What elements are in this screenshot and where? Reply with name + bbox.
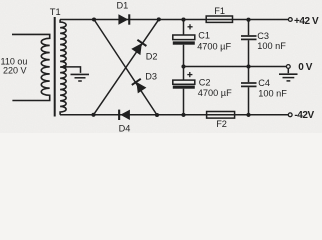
wire top rail (+ rail) [60, 19, 288, 21]
capacitor C4 [241, 67, 257, 115]
wire diagonal for D3 [94, 20, 157, 116]
terminal 0V [286, 65, 290, 69]
capacitor C1 [173, 20, 195, 67]
node C1 top [181, 18, 185, 22]
wire diagonal for D2 [94, 19, 159, 114]
wire center tap [65, 67, 81, 73]
node bridge bottom-left [91, 113, 95, 117]
wire 0V ground stub [287, 68, 289, 73]
node bridge top-left [92, 17, 96, 21]
node C3/C4 mid [246, 64, 250, 68]
node C2 bottom [181, 113, 185, 117]
ground (center tap) [71, 74, 90, 81]
wire bottom rail (- rail) [60, 114, 288, 116]
wire mid rail (0 V) [184, 66, 287, 68]
transformer T1 secondary winding [60, 20, 66, 115]
transformer T1 core [54, 17, 56, 117]
transformer T1 primary winding with leads [12, 34, 50, 100]
scan speckle overlay [0, 0, 1, 1]
node C1/C2 mid [181, 64, 185, 68]
node bridge top-right [157, 17, 161, 21]
capacitor C3 [241, 20, 257, 67]
fuse F2 [207, 112, 235, 119]
terminal -42V [288, 113, 292, 117]
node C3 top [246, 18, 250, 22]
ground (0V output) [279, 74, 298, 81]
terminal +42V [288, 18, 292, 22]
node center tap dot [63, 65, 67, 69]
diode D1 [118, 14, 130, 25]
node C4 bottom [246, 113, 250, 117]
diode D4 [118, 110, 130, 120]
node bridge bottom-right [155, 113, 159, 117]
diode D2 [131, 40, 146, 55]
capacitor C2 [173, 67, 195, 115]
fuse F1 [206, 16, 232, 22]
diode D3 [132, 79, 147, 94]
